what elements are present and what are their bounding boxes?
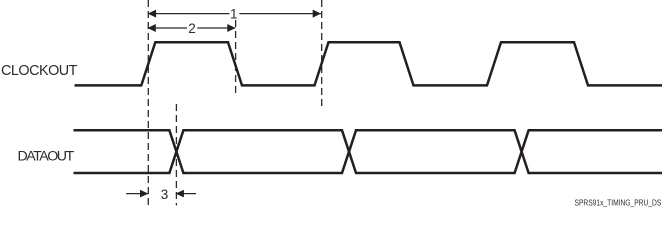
svg-text:SPRS91x_TIMING_PRU_DS: SPRS91x_TIMING_PRU_DS (574, 198, 661, 208)
svg-text:2: 2 (188, 21, 196, 36)
svg-text:DATAOUT: DATAOUT (18, 149, 75, 165)
svg-text:1: 1 (230, 7, 238, 22)
svg-text:CLOCKOUT: CLOCKOUT (1, 63, 78, 79)
svg-text:3: 3 (161, 187, 169, 202)
